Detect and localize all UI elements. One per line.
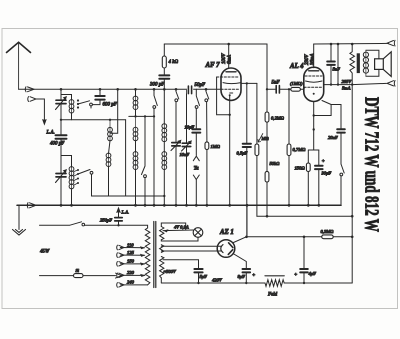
AF7 grid2 — [223, 83, 241, 84]
wire 250pF to switch line — [118, 221, 120, 225]
wire HV bottom to return — [160, 278, 162, 283]
wire 20nF to switch — [340, 133, 342, 164]
wire B+ line to 0,3M — [247, 236, 322, 238]
tap arrowheads — [140, 246, 146, 277]
transformer output secondary — [365, 50, 367, 76]
wire jack to bus2 — [195, 180, 197, 206]
wire bottom return — [162, 282, 266, 284]
switch S7 x206 — [206, 89, 209, 99]
wire L7 bottom to bus2 — [135, 170, 137, 206]
svg-text:110: 110 — [127, 242, 134, 247]
wire coil1 bottom — [71, 113, 73, 120]
capacitor trimmer antenna (x61 upper) — [56, 100, 66, 103]
wire screen feed x338 — [337, 44, 339, 85]
fuse Si — [74, 274, 84, 278]
wire to bus2 — [206, 150, 208, 206]
inductor coil L3 lower — [108, 154, 110, 167]
wire grid resistor to AL4 — [300, 88, 303, 90]
transformer AZ1 heater winding — [160, 245, 164, 253]
svg-text:≈500V: ≈500V — [164, 269, 177, 274]
svg-text:150: 150 — [127, 259, 135, 264]
wire x246.8 column — [246, 83, 248, 236]
AL4 anode plate — [309, 70, 319, 72]
switch tone S8 — [341, 164, 344, 173]
transformer HV winding — [160, 257, 164, 278]
AF7 grid3 dashed — [217, 76, 239, 78]
wire L8-L9 — [163, 142, 165, 152]
wire x117.7 — [111, 89, 118, 133]
svg-text:36mA: 36mA — [310, 54, 315, 65]
svg-text:AZ 1: AZ 1 — [219, 229, 234, 236]
resistor 0,2M — [265, 112, 269, 122]
tube AL4 envelope U2 — [304, 67, 324, 101]
lamp pilot — [193, 228, 203, 238]
capacitor 0.5uF — [243, 144, 251, 147]
tube AZ1 rectifier — [217, 240, 235, 258]
svg-text:4 kΩ: 4 kΩ — [169, 60, 179, 65]
wire coil L4 bottom — [71, 189, 73, 205]
wire to jack — [195, 133, 197, 156]
svg-text:5μF: 5μF — [200, 274, 208, 279]
svg-text:50kΩ: 50kΩ — [270, 161, 281, 166]
AF7 grid1 dashed — [221, 88, 240, 90]
wire x135.5 column top — [135, 89, 137, 96]
wire 4k to 300pF — [163, 68, 165, 75]
switch band selector S1 — [77, 99, 79, 108]
AL4 cathode — [313, 93, 315, 95]
wire x61 lower — [60, 139, 62, 173]
capacitor 8uF — [243, 269, 251, 272]
svg-text:100V: 100V — [222, 53, 227, 64]
tube AF7 envelope U1 — [221, 68, 241, 100]
resistor 150 Ohm — [306, 163, 310, 172]
wire L.A. input — [36, 99, 44, 120]
ground — [18, 205, 20, 229]
svg-text:AF 7: AF 7 — [205, 62, 221, 69]
AZ1 anode bars — [228, 243, 233, 255]
wire speaker bottom line — [352, 83, 386, 84]
resistor 0,3M — [322, 235, 334, 239]
node L.A. arrow tip — [43, 120, 47, 125]
wire x125.6 down — [125, 120, 127, 196]
svg-text:125: 125 — [127, 250, 135, 255]
svg-text:30μF: 30μF — [322, 171, 332, 176]
svg-text:250pF: 250pF — [100, 218, 112, 223]
wire 0,3M to B+ rail — [333, 236, 352, 238]
inductor coil L5 (top middle) — [135, 97, 137, 110]
svg-text:20nF: 20nF — [328, 135, 338, 140]
wire x164.3 column below bus1 — [163, 89, 165, 124]
wire L6 to L7 — [135, 141, 137, 152]
AL4 grid2 wavy — [306, 81, 323, 82]
svg-text:230V: 230V — [305, 54, 310, 65]
svg-text:45W: 45W — [40, 250, 50, 255]
svg-text:MΩ: MΩ — [261, 136, 270, 141]
wire lamp feed — [161, 223, 198, 241]
svg-text:L.A.: L.A. — [121, 210, 130, 215]
svg-text:Feld: Feld — [267, 293, 278, 298]
wire AL4 cathode bracket — [314, 101, 331, 116]
wire AF7 cathode to bus2 — [229, 95, 231, 205]
capacitor 10uF — [192, 129, 200, 132]
wire between coils x110 — [109, 141, 111, 154]
speaker LS — [375, 59, 384, 70]
svg-text:285V: 285V — [342, 79, 353, 84]
wire B+ rail x352 — [351, 85, 353, 283]
antenna — [7, 42, 31, 89]
capacitor trimmer T4 — [182, 143, 190, 146]
capacitor 600pF — [95, 96, 104, 100]
switch S6 x196.3 — [196, 89, 199, 105]
resistor 0,7M — [287, 144, 291, 156]
svg-text:8μF: 8μF — [238, 274, 246, 279]
capacitor 50pF series on bus1 — [187, 86, 193, 94]
wire HV tap to 5uF — [163, 260, 199, 269]
wire secondary to speaker — [366, 50, 379, 76]
wire x186.5 to bus2 — [186, 147, 188, 206]
svg-text:5mA: 5mA — [342, 86, 351, 91]
wire 4uF to bottom — [303, 272, 305, 283]
capacitor 4uF — [300, 269, 308, 272]
wire heater line y216 — [257, 215, 352, 217]
wire to resistor 50k — [266, 122, 268, 171]
capacitor 250pF — [115, 218, 122, 221]
resistor 1M AL4 grid — [291, 87, 301, 91]
wire AF7 plate lead — [241, 82, 257, 84]
wire fuse line — [40, 275, 74, 277]
AL4 grid1 dashed — [304, 86, 323, 88]
transformer taps — [120, 248, 147, 285]
wire pot bottom to heater line — [256, 156, 258, 217]
wire 5uF to bottom — [198, 272, 200, 283]
capacitor 300pF — [159, 75, 169, 78]
capacitor 5nF anode — [330, 44, 332, 61]
wire AL4 grid lead joins left — [304, 87, 305, 89]
wire switch to bus2 corner — [340, 176, 342, 205]
wire 30uF to bus2 — [318, 169, 320, 205]
capacitor 30uF cathode — [318, 150, 320, 165]
potentiometer volume — [256, 83, 258, 144]
switch S4 x154 top — [154, 89, 157, 105]
wire cathode split — [308, 130, 319, 164]
resistor 4k top — [163, 44, 165, 56]
transformer core — [154, 222, 156, 288]
connector L.A. second input — [28, 97, 36, 102]
AZ1 filament arc — [221, 245, 223, 253]
transformer output core — [357, 53, 360, 73]
svg-text:DTW 712 W und 812 W: DTW 712 W und 812 W — [361, 97, 383, 232]
svg-text:1MΩ: 1MΩ — [211, 144, 221, 149]
wire 50k to heater line — [266, 182, 268, 216]
inductor coil L2 upper — [109, 120, 111, 141]
svg-text:6mA: 6mA — [228, 55, 233, 64]
wire x61 column — [60, 89, 62, 134]
svg-text:4μF: 4μF — [309, 271, 317, 276]
node bus2 junctions — [60, 204, 321, 207]
svg-text:+: + — [322, 160, 325, 165]
capacitor 20nF tone — [337, 129, 345, 132]
wire AZ1 filament leads — [161, 246, 221, 251]
svg-text:5nF: 5nF — [333, 67, 341, 72]
connector antenna input — [25, 87, 34, 92]
wire L9 to bus2 — [163, 170, 165, 206]
svg-text:300 pF: 300 pF — [150, 83, 165, 88]
transformer mains primary — [145, 228, 150, 285]
wire x176 to bus2 — [175, 146, 177, 205]
svg-text:(1MΩ): (1MΩ) — [290, 81, 303, 86]
wire Feld to right — [284, 282, 352, 284]
wire ground bus2 — [17, 204, 341, 206]
wire 8uF to bottom — [245, 272, 247, 283]
wire horizontal A y119.8 — [61, 119, 126, 121]
jack Ta chevrons — [193, 156, 199, 161]
wire 150 to bus2 — [307, 172, 309, 206]
AF7 anode plate — [226, 71, 236, 73]
inductor coil L6 (middle) — [135, 116, 137, 140]
wire to transformer primary top — [119, 225, 148, 228]
switch mains S9 — [40, 222, 82, 226]
wire cathode down — [313, 116, 315, 130]
wire screen dropper column — [266, 44, 268, 112]
wire AL4 plate line right — [324, 84, 353, 86]
wire LA branch arrow up — [118, 212, 120, 218]
svg-text:10nF: 10nF — [180, 152, 190, 157]
wire coil L3 bottom to y196 — [108, 166, 110, 196]
wire 0,7M to bus2 — [288, 156, 290, 206]
inductor coil L8 — [163, 124, 165, 142]
capacitor 5uF — [194, 269, 202, 272]
svg-text:240: 240 — [127, 280, 135, 285]
svg-text:420V: 420V — [212, 278, 223, 283]
switch S5 x176 — [176, 89, 179, 99]
wire bracket coil2 box — [61, 156, 72, 168]
wire AF7 anode top lead — [228, 44, 230, 69]
wire 4uF column — [303, 237, 305, 268]
inductor coil L7 (lower middle) — [135, 152, 137, 170]
wire x61 to ground bus — [60, 177, 62, 205]
wire 5nF node — [267, 88, 276, 90]
wire AZ1 anode to node — [234, 237, 247, 243]
wire x289 column — [288, 89, 290, 144]
wire AF7 grid3-cathode bracket — [217, 77, 230, 115]
svg-text:AL 4: AL 4 — [289, 63, 304, 70]
field coil Feld — [265, 280, 284, 287]
resistor 50k — [265, 171, 269, 182]
AF7 cathode — [230, 92, 233, 94]
wire 300pF to bus1 — [163, 79, 165, 90]
svg-text:50pF: 50pF — [195, 83, 207, 88]
svg-text:+: + — [252, 274, 255, 279]
resistor 1M grid — [205, 142, 209, 150]
wire x186.5 column — [186, 89, 188, 142]
inductor coil L4 (x71.5 lower) — [71, 167, 73, 189]
svg-text:Ta: Ta — [194, 167, 199, 172]
wire 600pF branch — [93, 89, 101, 104]
connectors taps — [117, 245, 124, 250]
svg-text:10μF: 10μF — [185, 125, 195, 130]
connector bottom — [387, 81, 395, 87]
wire horizontal B y116.4 — [129, 115, 154, 117]
wire coil L5 bottom to node B — [135, 110, 137, 117]
switch S2 lower band — [77, 169, 79, 184]
inductor antenna coil L1 — [69, 100, 74, 105]
svg-text:5nF: 5nF — [272, 81, 281, 86]
wire 5nF to grid resistor — [279, 88, 290, 90]
wire AZ1 cathode down — [234, 254, 247, 268]
svg-text:400 pF: 400 pF — [50, 142, 65, 147]
node bus1 junctions — [60, 88, 208, 91]
svg-text:600 pF: 600 pF — [103, 103, 118, 108]
connector fuse to tap 220 — [116, 273, 122, 278]
capacitor 5nF coupling — [276, 86, 279, 93]
wire bracket to antenna coil 1 — [61, 95, 72, 101]
capacitor trimmer T3 — [172, 143, 180, 146]
transformer heater winding 4V — [160, 227, 164, 240]
wire y196 horizontal — [92, 195, 165, 197]
connector top right — [387, 40, 395, 46]
connector on bus2 — [27, 203, 36, 208]
wire tone branch — [331, 105, 341, 129]
wire x196.3 — [195, 108, 197, 128]
wire bus1 top-left horizontal — [19, 88, 221, 90]
svg-text:L.A.: L.A. — [46, 131, 55, 136]
svg-text:+: + — [294, 273, 297, 278]
capacitor trimmer (x61 lower) — [56, 174, 66, 177]
wire top supply y44 left segment — [164, 43, 267, 45]
transformer output primary — [350, 44, 355, 85]
wire x207 column — [206, 102, 208, 142]
wire top supply y44 right segment — [314, 42, 389, 45]
switch S3 x145 — [142, 116, 146, 174]
wire AL4 anode top lead — [313, 44, 315, 68]
svg-text:150Ω: 150Ω — [295, 166, 306, 171]
wire switch S2 to y196 — [91, 174, 93, 196]
AL4 grid3 dashed — [305, 75, 322, 77]
svg-text:220: 220 — [127, 270, 135, 275]
capacitor 400pF — [56, 135, 67, 139]
wire x247 bus2 to AZ1 node — [246, 205, 248, 237]
wire 5nF to plate line — [330, 65, 332, 85]
inductor coil L9 — [163, 152, 165, 170]
